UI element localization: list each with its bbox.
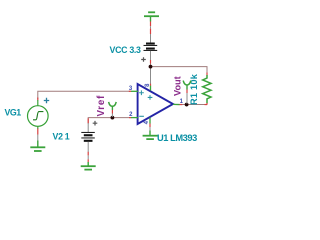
wire VCC junction down to op-amp pin8 [150,67,152,86]
wire op-amp pin4 to ground [149,124,151,131]
svg-text:V2 1: V2 1 [53,131,70,141]
supply + mark [148,95,153,100]
battery V2 [81,123,95,152]
svg-text:U1 LM393: U1 LM393 [157,133,197,143]
pin 2 lead [131,117,138,119]
op-amp U1 triangle [138,84,173,124]
wire output net [179,104,207,106]
svg-text:Vout: Vout [172,76,182,96]
ground below VG1 [30,129,45,152]
svg-text:VG1: VG1 [5,107,22,117]
resistor R1 [203,73,211,105]
Vref voltage pin hook [109,102,117,117]
input + mark [139,90,144,95]
pin 4 lead [149,118,151,124]
battery VCC [144,44,158,60]
ground below V2 [81,152,96,170]
VCC polarity + [141,57,146,62]
svg-text:R1 10k: R1 10k [189,73,199,105]
node B junction dot (Vout) [185,103,189,107]
input - mark [139,115,144,117]
wire V2 to op-amp pin2 (Vref net) [88,118,131,124]
node A junction dot (VCC) [149,65,153,69]
ground above VCC battery (inverted) [144,12,159,43]
VG1 polarity + [44,98,49,103]
wire VCC top rail [151,60,208,73]
svg-text:Vref: Vref [96,95,107,117]
pin 1 lead [173,103,180,105]
ground below op-amp [143,131,158,140]
V2 polarity + [93,121,98,126]
wire VG1 top to op-amp pin3 [38,91,131,100]
pin 3 lead [131,90,138,92]
voltage source VG1 [28,100,49,129]
Vout voltage pin hook [183,81,191,104]
pin 8 lead [150,86,152,91]
svg-text:VCC 3.3: VCC 3.3 [110,45,142,55]
node C junction dot (Vref) [111,116,115,120]
